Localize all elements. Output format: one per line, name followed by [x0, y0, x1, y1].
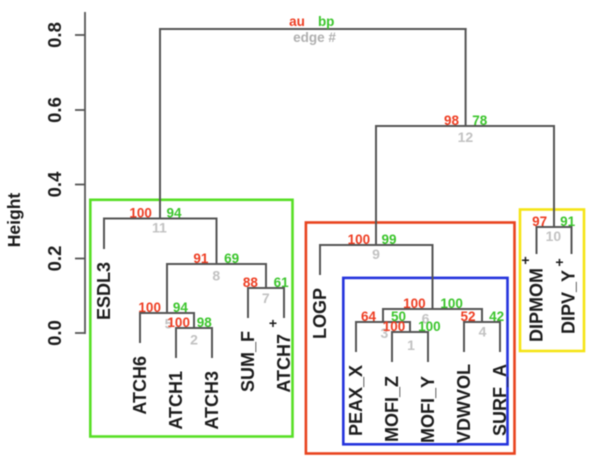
svg-text:78: 78: [472, 113, 488, 128]
edge 7 au/bp labels: [243, 275, 289, 290]
svg-text:ATCH1: ATCH1: [166, 371, 186, 430]
legend au bp edge# at root: [289, 14, 336, 45]
svg-text:+: +: [555, 254, 563, 270]
svg-text:DIPMOM: DIPMOM: [527, 268, 547, 342]
svg-text:64: 64: [361, 309, 377, 324]
leaf label SURF_A: [490, 364, 510, 436]
svg-text:52: 52: [460, 309, 475, 324]
svg-text:ATCH3: ATCH3: [202, 371, 222, 430]
red cluster box (edge 9 cluster): [306, 223, 515, 454]
svg-text:11: 11: [152, 220, 167, 236]
svg-text:PEAX_X: PEAX_X: [346, 365, 366, 436]
edge 11 au/bp labels: [129, 206, 182, 221]
svg-text:au: au: [289, 14, 305, 29]
svg-text:91: 91: [560, 214, 576, 229]
svg-text:2: 2: [190, 332, 198, 348]
leaf label VDWVOL: [454, 364, 474, 443]
edge 12 au/bp labels: [444, 113, 488, 128]
leaf label PEAX_X: [346, 365, 366, 436]
leaf label MOFI_Z: [382, 376, 402, 442]
svg-text:10: 10: [546, 228, 562, 244]
yellow cluster box (edge 10 cluster): [520, 210, 584, 352]
branch edge 12: [376, 126, 554, 245]
svg-text:100: 100: [440, 296, 463, 311]
edge 6 au/bp labels: [403, 296, 463, 311]
svg-text:VDWVOL: VDWVOL: [454, 364, 474, 443]
branch edge 5: [140, 313, 194, 342]
svg-text:12: 12: [458, 129, 474, 145]
leaf label DIPMOM: [521, 252, 546, 342]
svg-text:MOFI_Z: MOFI_Z: [382, 376, 402, 442]
svg-text:61: 61: [274, 275, 290, 290]
svg-text:ATCH7: ATCH7: [274, 334, 294, 393]
branch edge 3: [356, 322, 410, 351]
svg-text:SUM_F: SUM_F: [238, 331, 258, 392]
y axis line: [75, 12, 85, 334]
svg-text:88: 88: [243, 275, 259, 290]
svg-text:100: 100: [403, 296, 426, 311]
svg-text:0.4: 0.4: [44, 171, 65, 197]
edge 8 au/bp labels: [193, 251, 239, 266]
svg-text:bp: bp: [318, 14, 335, 29]
edge 3 au/bp labels: [361, 309, 406, 324]
svg-text:100: 100: [167, 315, 190, 330]
svg-text:50: 50: [391, 309, 406, 324]
branch edge 8: [167, 264, 266, 313]
svg-text:99: 99: [381, 232, 396, 247]
svg-text:edge #: edge #: [293, 30, 336, 45]
leaf label LOGP: [310, 288, 330, 339]
leaf label ESDL3: [94, 262, 114, 320]
green cluster box (edge 11 cluster): [90, 200, 292, 437]
leaf label ATCH1: [166, 371, 186, 430]
svg-text:0.8: 0.8: [44, 22, 65, 48]
edge 10 au/bp labels: [532, 214, 576, 229]
svg-text:98: 98: [197, 315, 213, 330]
svg-text:0.6: 0.6: [44, 97, 65, 123]
branch edge 2: [176, 328, 212, 357]
leaf label ATCH6: [130, 356, 150, 415]
edge 4 au/bp labels: [460, 309, 504, 324]
svg-text:42: 42: [489, 309, 504, 324]
svg-text:ESDL3: ESDL3: [94, 262, 114, 320]
branch edge 7: [248, 288, 284, 317]
branch edge 6: [383, 309, 482, 322]
y axis tick labels: [44, 22, 65, 346]
svg-text:1: 1: [407, 337, 415, 353]
svg-text:94: 94: [173, 300, 189, 315]
edge 1 au/bp labels: [383, 319, 441, 334]
svg-text:100: 100: [418, 319, 441, 334]
svg-text:100: 100: [348, 232, 371, 247]
svg-text:SURF_A: SURF_A: [490, 364, 510, 436]
branch edge 9: [320, 245, 433, 309]
branch edge 4: [464, 322, 500, 351]
edge 5 au/bp labels: [138, 300, 188, 315]
svg-text:69: 69: [224, 251, 239, 266]
blue cluster box (edge 6 cluster): [343, 278, 507, 444]
svg-text:97: 97: [532, 214, 547, 229]
leaf label SUM_F: [238, 331, 258, 392]
svg-text:DIPV_Y: DIPV_Y: [559, 270, 579, 334]
svg-text:8: 8: [212, 268, 220, 284]
leaf label ATCH3: [202, 371, 222, 430]
svg-text:4: 4: [479, 324, 487, 340]
svg-text:Height: Height: [4, 193, 24, 248]
leaf label DIPV_Y: [555, 254, 578, 334]
branch edge 13 (root): [160, 29, 466, 219]
edge 2 au/bp labels: [167, 315, 212, 330]
svg-text:100: 100: [129, 206, 152, 221]
svg-text:0.0: 0.0: [44, 320, 65, 346]
svg-text:94: 94: [166, 206, 182, 221]
svg-text:7: 7: [262, 290, 270, 306]
svg-text:LOGP: LOGP: [310, 288, 330, 339]
svg-text:9: 9: [372, 246, 380, 262]
svg-text:MOFI_Y: MOFI_Y: [418, 376, 438, 443]
branch edge 11: [104, 219, 217, 265]
svg-text:+: +: [269, 315, 277, 331]
edge 9 au/bp labels: [348, 232, 397, 247]
leaf label MOFI_Y: [418, 376, 438, 443]
branch edge 1: [392, 332, 428, 361]
svg-text:+: +: [521, 252, 529, 268]
svg-text:100: 100: [138, 300, 161, 315]
svg-text:98: 98: [444, 113, 460, 128]
svg-text:0.2: 0.2: [44, 246, 65, 272]
branch edge 10: [537, 227, 572, 253]
svg-text:ATCH6: ATCH6: [130, 356, 150, 415]
svg-text:91: 91: [193, 251, 209, 266]
leaf label ATCH7: [269, 315, 294, 393]
